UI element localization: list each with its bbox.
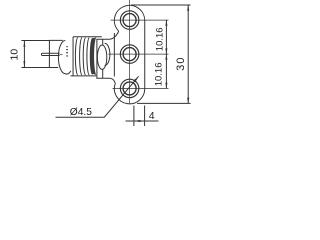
node H1 centerline [111,19,169,21]
transition arc bottom [110,78,115,83]
svg-text:4: 4 [149,110,155,122]
arrowhead 1016a top [165,20,167,26]
dimension 30 line [187,5,189,103]
arrowhead dim10 top [23,40,25,46]
node H2 centerline [108,53,168,55]
dimension 10.16 line [165,20,167,88]
arrowhead dim4 left [134,120,140,122]
svg-text:10.16: 10.16 [154,27,165,51]
flange outline [114,5,144,104]
thread band dark [90,37,96,75]
dimension 4 extension lines [134,106,145,127]
barrel body [49,40,62,67]
hole H1 inner [123,14,136,27]
arrowhead dim10 bottom [23,61,25,67]
thread ring T5 [90,38,92,74]
dimension 10 line [23,40,25,67]
hole H3 outer [120,79,139,98]
thread ring T3 [83,38,85,75]
dimension 4 line [126,120,159,122]
face ellipse E1 [58,40,70,74]
thread ring T4 [87,38,89,75]
transition arc top [110,31,119,39]
arrowhead leader [133,77,138,83]
svg-text:10.16: 10.16 [153,63,164,87]
boss arc [105,43,110,65]
dimension 10 extension lines [21,40,49,67]
svg-text:10: 10 [9,49,21,61]
pin P1 [41,53,59,55]
wire vertical centerline [129,0,131,104]
hole H3 inner [123,82,136,95]
dimension 30 extension lines [131,5,191,103]
thread envelope [71,37,102,76]
arrowhead 1016b bottom [165,83,167,89]
svg-text:Ø4.5: Ø4.5 [70,107,92,118]
thread ring T1 [75,38,77,75]
marking text [66,47,68,57]
wire pin tail [60,53,63,55]
node H3 centerline [113,87,169,89]
arrowhead dim30 bottom [187,98,189,104]
hole H2 outer [120,45,139,64]
nut section [96,39,110,78]
cap ellipse E2 [97,45,106,69]
svg-text:30: 30 [175,56,187,71]
arrowhead dim30 top [187,5,189,11]
arrowhead 1016a bottom [165,48,167,54]
leader line [56,76,139,117]
hole H1 outer [120,11,139,30]
flange left edge [113,33,115,77]
thread ring T2 [80,38,82,75]
arrowhead dim4 right [139,120,145,122]
arrowhead 1016b top [165,54,167,60]
hole H2 inner [123,48,136,61]
